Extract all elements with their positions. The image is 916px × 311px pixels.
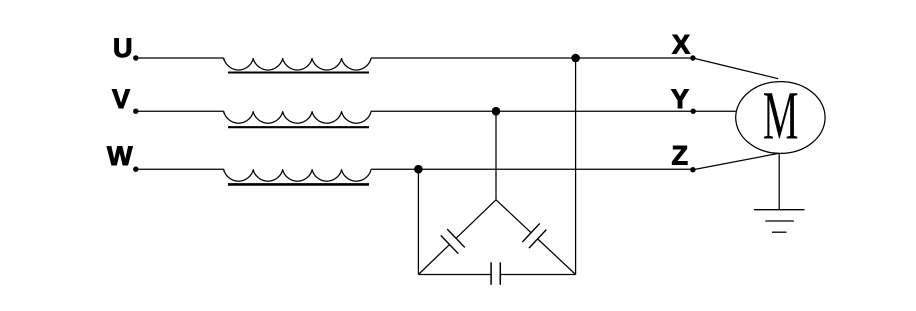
wire W phase xyxy=(136,168,224,170)
wire Z to motor xyxy=(693,153,779,169)
terminal X xyxy=(690,55,695,60)
terminal U xyxy=(133,55,138,60)
wire W to Z xyxy=(371,168,693,170)
svg-text:M: M xyxy=(763,79,799,155)
junction U tap xyxy=(571,54,580,63)
junction W tap xyxy=(414,165,423,174)
capacitor C3 (bottom) xyxy=(418,274,491,276)
svg-text:V: V xyxy=(112,84,130,114)
wire V to Y xyxy=(371,110,693,112)
wire motor to ground xyxy=(778,153,780,209)
junction V tap xyxy=(492,107,501,116)
terminal W xyxy=(133,167,138,172)
motor M1 circle xyxy=(736,82,825,154)
svg-text:Y: Y xyxy=(671,84,689,114)
svg-text:U: U xyxy=(113,33,133,63)
wire U phase xyxy=(136,57,224,59)
wire U to X xyxy=(371,57,693,59)
wire Y to motor xyxy=(693,110,736,112)
wire X to motor xyxy=(693,58,778,79)
wire W tap down xyxy=(417,169,419,274)
reactor L3 xyxy=(224,169,371,181)
svg-text:Z: Z xyxy=(672,140,689,170)
reactor L2 xyxy=(224,111,371,123)
wire V tap down xyxy=(495,111,497,200)
svg-text:W: W xyxy=(107,141,133,171)
terminal Z xyxy=(690,167,695,172)
svg-text:X: X xyxy=(672,30,690,60)
terminal Y xyxy=(691,109,696,114)
capacitor C2 (right diagonal) xyxy=(496,200,531,233)
capacitor C1 (left diagonal) xyxy=(456,200,496,238)
wire U tap down xyxy=(575,58,577,275)
wire V phase xyxy=(136,110,224,112)
terminal V xyxy=(133,109,138,114)
ground xyxy=(754,209,805,211)
reactor L1 xyxy=(224,58,371,70)
